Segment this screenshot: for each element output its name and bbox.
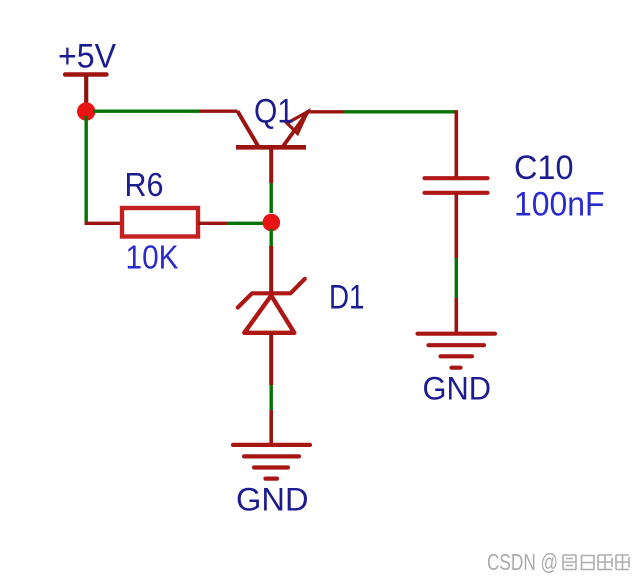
power +5V stem wire [84, 75, 88, 106]
wire D1 bottom pin red [269, 333, 273, 385]
wire emitter to C10 green horizontal [343, 110, 457, 113]
wire C10-GND green segment [455, 258, 458, 298]
wire GND left pin red [269, 410, 273, 445]
svg-text:GND: GND [236, 482, 309, 518]
svg-text:D1: D1 [329, 279, 365, 317]
svg-text:10K: 10K [126, 239, 179, 276]
watermark CJK glyph blocks [563, 555, 629, 570]
wire R6 right pin red [198, 222, 227, 225]
wire GND right pin red [454, 298, 458, 334]
resistor R6 [122, 208, 198, 237]
capacitor C10 [425, 178, 488, 193]
watermark CSDN [487, 549, 558, 575]
svg-text:CSDN @: CSDN @ [487, 549, 558, 575]
wire net +5V horizontal green (node A to Q1 collector) [93, 109, 199, 112]
wire node B down green segment [270, 229, 273, 246]
wire D1 top pin red [269, 246, 273, 293]
transistor Q1 [236, 111, 308, 183]
svg-text:100nF: 100nF [514, 186, 605, 224]
svg-text:Q1: Q1 [254, 93, 294, 131]
svg-text:C10: C10 [514, 149, 574, 187]
wire D1-GND green segment [270, 385, 273, 410]
wire C10 top pin red vertical [454, 110, 458, 178]
svg-text:R6: R6 [125, 166, 164, 203]
zener diode D1 [238, 279, 305, 333]
wire C10 bottom pin red [454, 193, 458, 258]
wire Q1 collector pin red [199, 109, 238, 112]
wire Q1 emitter pin red [307, 110, 344, 113]
svg-text:GND: GND [423, 371, 492, 407]
svg-text:+5V: +5V [58, 38, 116, 76]
ground GND right symbol [418, 334, 496, 368]
power +5V symbol bar [65, 72, 107, 76]
wire Q1 base green segment [270, 183, 273, 213]
ground GND left symbol [233, 445, 310, 479]
wire R6 to node B green [227, 222, 263, 225]
junction node B dot [263, 214, 281, 232]
wire net node A vertical green down to R6 [84, 116, 87, 223]
wire R6 left pin red [85, 222, 123, 225]
junction node A dot [77, 102, 95, 120]
